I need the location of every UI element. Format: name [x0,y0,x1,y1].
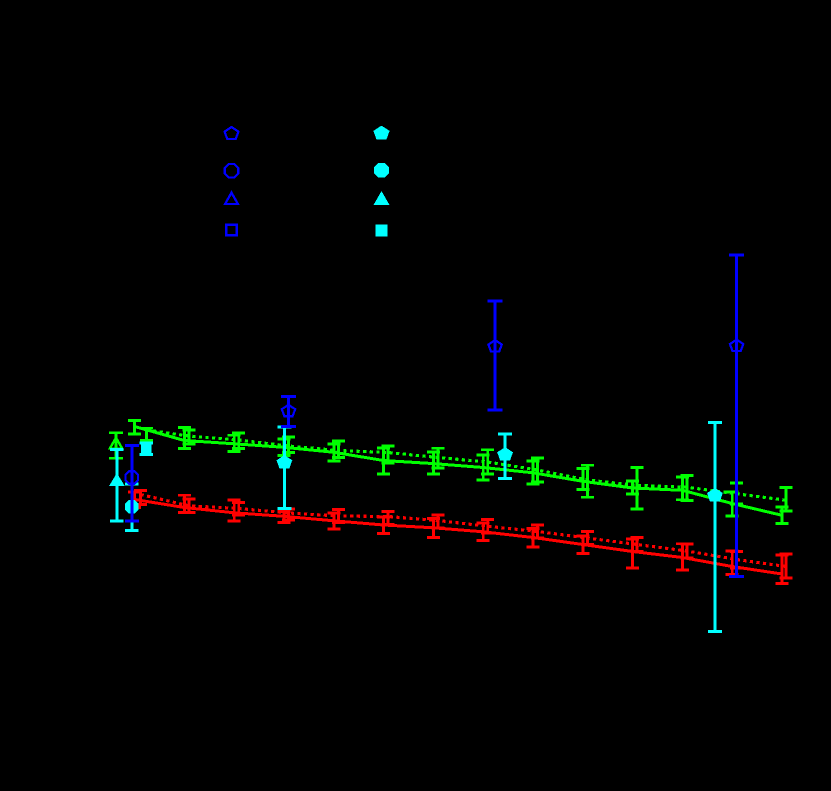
green dotted errbar 9 [581,465,594,497]
green solid errbar 2 [228,435,241,451]
legend cyan filled square [376,225,387,236]
legend blue open square [226,225,237,236]
red dotted errbar 9 [581,532,594,545]
red solid errbar 13 [776,555,789,584]
red dotted line [141,495,786,567]
cyan triangle point errbar [110,450,124,521]
blue open octagon marker [126,471,139,484]
green dotted errbar 12 [730,483,743,504]
red solid errbar 3 [278,512,291,523]
green solid errbar 8 [527,461,540,484]
red dotted errbar 5 [382,512,395,525]
green dotted errbar 4 [332,441,345,458]
red dotted errbar 4 [332,510,345,523]
legend blue open pentagon [225,127,239,139]
red solid errbar 2 [228,500,241,521]
green solid errbar 7 [477,455,490,480]
blue octagon point errbar [125,445,139,521]
blue pentagon point 1 errbar [281,397,296,427]
red solid errbar 0 [128,492,141,508]
green dotted errbar 0 [140,428,153,440]
green solid errbar 9 [576,469,589,490]
red dotted errbar 11 [680,544,693,558]
legend cyan filled octagon [375,163,389,177]
green dotted errbar 7 [481,450,494,474]
cyan pentagon point 2 errbar [498,434,512,479]
red dotted errbar 2 [232,503,245,516]
blue open pentagon marker 3 [730,340,743,351]
red dotted errbar 12 [730,552,743,569]
red solid errbar 12 [726,551,739,575]
green solid errbar 13 [776,507,789,524]
green open-triangle point errbar [109,433,123,459]
blue open pentagon marker 1 [282,405,295,416]
red dotted errbar 1 [182,499,195,513]
cyan filled pentagon marker 2 [498,448,513,461]
red solid errbar 8 [527,529,540,548]
green open triangle marker [110,438,122,449]
cyan pentagon point 1 errbar [277,427,291,509]
green solid line [135,427,782,516]
green solid errbar 11 [676,477,689,500]
cyan filled triangle marker [110,474,124,486]
cyan filled pentagon marker 3 [708,488,723,501]
green dotted errbar 10 [631,467,644,509]
cyan filled octagon marker [125,500,138,513]
red solid line [135,500,782,575]
cyan octagon point errbar [125,484,139,530]
red dotted errbar 7 [481,520,494,534]
cyan pentagon point 3 errbar [708,423,722,632]
green solid errbar 5 [377,448,390,474]
legend blue open triangle [225,193,238,204]
legend blue open octagon [225,164,238,177]
green solid errbar 4 [327,444,340,461]
legend cyan filled triangle [374,192,388,205]
cyan filled square marker [141,443,151,453]
green dotted errbar 5 [382,446,395,463]
red dotted errbar 0 [134,491,147,505]
blue pentagon point 2 errbar [488,301,503,410]
cyan square point errbar [140,443,154,454]
red solid errbar 1 [178,495,191,512]
green solid errbar 12 [726,492,739,516]
red solid errbar 5 [377,517,390,534]
red solid errbar 7 [477,523,490,541]
red solid errbar 10 [626,539,639,568]
green solid errbar 1 [178,428,191,449]
cyan filled pentagon marker 1 [277,456,292,469]
green solid errbar 0 [128,421,141,434]
red solid errbar 11 [676,544,689,570]
green dotted errbar 2 [232,433,245,449]
green solid errbar 10 [626,481,639,494]
green dotted errbar 8 [531,458,544,482]
green solid errbar 6 [427,452,440,474]
red solid errbar 9 [576,536,589,554]
red dotted errbar 8 [531,525,544,538]
red dotted errbar 13 [780,554,793,578]
green dotted errbar 6 [431,448,444,468]
red dotted errbar 6 [431,515,444,528]
blue open pentagon marker 2 [488,340,501,351]
green dotted errbar 11 [680,475,693,500]
green dotted line [147,430,787,500]
green dotted errbar 1 [182,430,195,444]
green solid errbar 3 [278,439,291,455]
red solid errbar 6 [427,519,440,538]
red dotted errbar 3 [282,509,295,520]
blue pentagon point 3 errbar [729,255,744,577]
green dotted errbar 3 [282,437,295,453]
legend cyan filled pentagon [374,126,389,139]
red solid errbar 4 [327,513,340,529]
green dotted errbar 13 [780,488,793,512]
red dotted errbar 10 [631,538,644,552]
